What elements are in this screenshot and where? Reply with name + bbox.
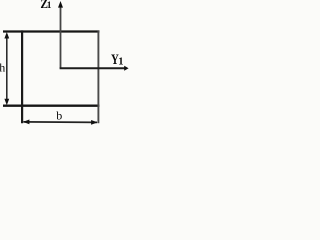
square section top edge (with left extension for h dimension) (3, 30, 99, 32)
h dimension top arrowhead (4, 32, 9, 39)
svg-text:1: 1 (118, 57, 123, 68)
b dimension right arrowhead (91, 120, 98, 125)
h dimension line (6, 34, 8, 103)
Y1 axis arrowhead (124, 66, 128, 71)
svg-text:h: h (0, 60, 5, 74)
Z1 axis arrowhead (58, 1, 63, 8)
svg-text:1: 1 (47, 1, 52, 11)
b dimension left arrowhead (23, 120, 30, 125)
svg-text:b: b (56, 108, 62, 122)
background (0, 0, 129, 129)
b dimension line (24, 121, 98, 124)
square section left edge (extended down to b dimension line) (21, 30, 23, 123)
axis Z1 shaft (60, 7, 62, 69)
square section right edge (extended down to b dimension line) (97, 30, 99, 123)
axis Y1 shaft (60, 67, 125, 69)
square section bottom edge (with left extension for h dimension) (3, 105, 99, 107)
h dimension bottom arrowhead (4, 99, 9, 106)
